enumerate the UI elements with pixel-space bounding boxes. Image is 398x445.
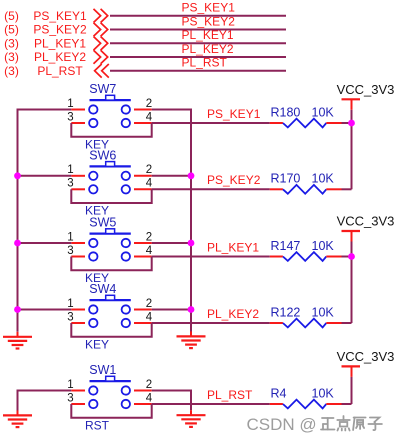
svg-text:1: 1 bbox=[67, 231, 73, 243]
wire SW4 pin2 to GND bus bbox=[152, 309, 192, 311]
svg-text:(3): (3) bbox=[4, 37, 19, 51]
svg-text:PL_RST: PL_RST bbox=[37, 64, 83, 78]
svg-text:R180: R180 bbox=[271, 105, 301, 119]
resistor R180 10K bbox=[270, 119, 342, 128]
net label PS_KEY1 bbox=[182, 1, 236, 15]
wire net PS_KEY2 bbox=[152, 188, 270, 190]
ground right bbox=[177, 331, 206, 348]
sheet entry chevron PL_KEY2 bbox=[94, 50, 108, 64]
svg-text:R170: R170 bbox=[271, 172, 301, 186]
wire SW6 pin1 to GND bus bbox=[17, 175, 72, 177]
junction left bus bbox=[14, 172, 21, 179]
net label PL_KEY2 bbox=[182, 42, 234, 56]
svg-text:4: 4 bbox=[146, 245, 153, 257]
SW5 pin 2 bbox=[134, 231, 152, 243]
wire PL_KEY1 bbox=[110, 42, 286, 44]
sheet entry chevron PS_KEY1 bbox=[94, 9, 108, 23]
label R147 bbox=[271, 239, 301, 253]
svg-text:PS_KEY2: PS_KEY2 bbox=[182, 14, 236, 28]
SW6 pin 2 bbox=[134, 164, 152, 176]
SW7 pin 4 bbox=[134, 111, 153, 123]
svg-text:VCC_3V3: VCC_3V3 bbox=[337, 82, 395, 97]
svg-text:10K: 10K bbox=[312, 239, 335, 253]
wire pins 3-4 of SW6 bbox=[71, 189, 151, 203]
wire VCC rail bbox=[351, 110, 353, 190]
svg-text:VCC_3V3: VCC_3V3 bbox=[337, 349, 395, 364]
svg-text:PS_KEY1: PS_KEY1 bbox=[182, 1, 236, 15]
junction VCC rail bbox=[348, 120, 355, 127]
SW7 pin 3 bbox=[67, 111, 85, 123]
svg-text:(3): (3) bbox=[4, 64, 19, 78]
svg-text:2: 2 bbox=[146, 98, 152, 110]
svg-text:PS_KEY1: PS_KEY1 bbox=[33, 9, 87, 23]
resistor R170 10K bbox=[270, 185, 342, 194]
junction right bus bbox=[188, 240, 195, 247]
wire pins 3-4 of SW7 bbox=[71, 123, 151, 137]
svg-text:4: 4 bbox=[146, 311, 153, 323]
svg-text:PL_KEY1: PL_KEY1 bbox=[34, 37, 86, 51]
svg-text:PL_KEY1: PL_KEY1 bbox=[207, 240, 259, 254]
wire PL_KEY2 bbox=[110, 56, 286, 58]
svg-text:PL_KEY2: PL_KEY2 bbox=[207, 307, 259, 321]
label R122 bbox=[271, 305, 301, 319]
label R170 bbox=[271, 172, 301, 186]
svg-text:PS_KEY2: PS_KEY2 bbox=[33, 23, 87, 37]
wire SW5 pin1 to GND bus bbox=[17, 242, 72, 244]
watermark char dian bbox=[337, 416, 350, 431]
switch SW1 body bbox=[89, 376, 131, 408]
wire R122 to VCC rail bbox=[342, 322, 352, 324]
svg-text:R122: R122 bbox=[271, 305, 301, 319]
SW4 pin 3 bbox=[67, 311, 85, 323]
net label PS_KEY2 bbox=[182, 14, 236, 28]
watermark char yuan bbox=[353, 418, 366, 431]
svg-text:3: 3 bbox=[67, 392, 73, 404]
net label PS_KEY1 bbox=[207, 107, 261, 121]
ground left bbox=[3, 332, 32, 349]
ground SW1 left bbox=[3, 410, 32, 427]
wire net PL_KEY2 bbox=[152, 322, 270, 324]
wire net PL_KEY1 bbox=[152, 256, 270, 258]
wire R180 to VCC rail bbox=[342, 122, 352, 124]
designator SW7 bbox=[89, 82, 116, 96]
sheet entry chevron PL_RST bbox=[95, 64, 109, 78]
wire R147 to VCC rail bbox=[342, 256, 352, 258]
designator SW5 bbox=[89, 216, 116, 230]
wire SW1 pin2 to GND bbox=[152, 391, 191, 411]
svg-text:R4: R4 bbox=[271, 386, 287, 400]
svg-text:3: 3 bbox=[67, 245, 73, 257]
switch SW4 body bbox=[89, 295, 131, 327]
port name PS_KEY1 bbox=[33, 9, 87, 23]
svg-text:(3): (3) bbox=[4, 50, 19, 64]
svg-text:4: 4 bbox=[146, 392, 153, 404]
wire pins 3-4 of SW5 bbox=[71, 257, 151, 271]
SW6 pin 1 bbox=[67, 164, 85, 176]
wire SW6 pin2 to GND bus bbox=[152, 175, 192, 177]
wire PL_RST bbox=[110, 70, 286, 72]
port reference (5) PS_KEY2 bbox=[4, 23, 19, 37]
junction left bus bbox=[14, 306, 21, 313]
watermark CSDN bbox=[247, 415, 317, 434]
svg-text:10K: 10K bbox=[312, 305, 335, 319]
value 10K bbox=[312, 386, 335, 400]
net label PL_KEY2 bbox=[207, 307, 259, 321]
sheet entry chevron PL_KEY1 bbox=[94, 37, 108, 51]
SW7 pin 2 bbox=[134, 98, 152, 110]
switch SW7 body bbox=[89, 95, 131, 127]
designator SW1 bbox=[89, 363, 116, 377]
SW7 pin 1 bbox=[67, 98, 85, 110]
wire pins 3-4 of SW4 bbox=[71, 323, 151, 337]
port reference (3) PL_RST bbox=[4, 64, 19, 78]
wire PS_KEY2 bbox=[110, 29, 286, 31]
wire SW4 pin1 to GND bus bbox=[17, 309, 72, 311]
wire pins 3-4 of SW1 bbox=[71, 404, 151, 418]
svg-text:2: 2 bbox=[146, 379, 152, 391]
svg-text:1: 1 bbox=[67, 379, 73, 391]
SW1 pin 1 bbox=[67, 379, 85, 391]
port name PL_RST bbox=[37, 64, 83, 78]
svg-text:SW6: SW6 bbox=[89, 149, 116, 163]
wire VCC rail bbox=[351, 377, 353, 404]
svg-text:(5): (5) bbox=[4, 9, 19, 23]
label R4 bbox=[271, 386, 287, 400]
svg-text:10K: 10K bbox=[312, 386, 335, 400]
SW4 pin 2 bbox=[134, 298, 152, 310]
ground SW1 right bbox=[177, 410, 206, 427]
SW5 pin 4 bbox=[134, 245, 153, 257]
svg-text:PL_KEY2: PL_KEY2 bbox=[182, 42, 234, 56]
SW1 pin 4 bbox=[134, 392, 153, 404]
SW1 pin 2 bbox=[134, 379, 152, 391]
left GND bus bbox=[17, 109, 19, 332]
wire SW5 pin2 to GND bus bbox=[152, 242, 192, 244]
svg-text:CSDN @: CSDN @ bbox=[247, 415, 317, 434]
comment KEY bbox=[85, 137, 109, 151]
svg-text:PL_RST: PL_RST bbox=[207, 388, 253, 402]
svg-text:PL_KEY2: PL_KEY2 bbox=[34, 50, 86, 64]
svg-text:PS_KEY1: PS_KEY1 bbox=[207, 107, 261, 121]
SW6 pin 3 bbox=[67, 178, 85, 190]
svg-text:PS_KEY2: PS_KEY2 bbox=[207, 173, 261, 187]
svg-text:KEY: KEY bbox=[85, 337, 109, 351]
net label PS_KEY2 bbox=[207, 173, 261, 187]
junction left bus bbox=[14, 240, 21, 247]
net label PL_KEY1 bbox=[207, 240, 259, 254]
svg-text:R147: R147 bbox=[271, 239, 301, 253]
comment KEY bbox=[85, 271, 109, 285]
port reference (5) PS_KEY1 bbox=[4, 9, 19, 23]
right GND bus bbox=[190, 109, 192, 332]
SW4 pin 1 bbox=[67, 298, 85, 310]
junction right bus bbox=[188, 172, 195, 179]
svg-text:PL_RST: PL_RST bbox=[182, 56, 228, 70]
port name PS_KEY2 bbox=[33, 23, 87, 37]
SW4 pin 4 bbox=[134, 311, 153, 323]
svg-text:4: 4 bbox=[146, 111, 153, 123]
comment KEY bbox=[85, 337, 109, 351]
switch SW6 body bbox=[89, 162, 131, 194]
designator SW6 bbox=[89, 149, 116, 163]
wire SW1 pin1 to GND bbox=[18, 391, 72, 411]
junction right bus bbox=[188, 306, 195, 313]
svg-text:10K: 10K bbox=[312, 105, 335, 119]
resistor R122 10K bbox=[270, 319, 342, 328]
designator SW4 bbox=[89, 282, 116, 296]
port reference (3) PL_KEY2 bbox=[4, 50, 19, 64]
watermark char zi bbox=[368, 418, 382, 431]
value 10K bbox=[312, 239, 335, 253]
svg-text:PL_KEY1: PL_KEY1 bbox=[182, 28, 234, 42]
net label PL_KEY1 bbox=[182, 28, 234, 42]
value 10K bbox=[312, 172, 335, 186]
comment RST bbox=[85, 418, 110, 432]
svg-text:1: 1 bbox=[67, 298, 73, 310]
resistor R147 10K bbox=[270, 252, 342, 261]
SW5 pin 3 bbox=[67, 245, 85, 257]
value 10K bbox=[312, 305, 335, 319]
sheet entry chevron PS_KEY2 bbox=[94, 23, 108, 37]
svg-text:4: 4 bbox=[146, 178, 153, 190]
label R180 bbox=[271, 105, 301, 119]
svg-text:10K: 10K bbox=[312, 172, 335, 186]
svg-text:SW1: SW1 bbox=[89, 363, 116, 377]
port reference (3) PL_KEY1 bbox=[4, 37, 19, 51]
svg-text:SW4: SW4 bbox=[89, 282, 116, 296]
switch SW5 body bbox=[89, 229, 131, 261]
comment KEY bbox=[85, 204, 109, 218]
wire VCC rail bbox=[351, 242, 353, 324]
svg-text:SW7: SW7 bbox=[89, 82, 116, 96]
svg-text:1: 1 bbox=[67, 98, 73, 110]
wire R4 to VCC rail bbox=[342, 403, 352, 405]
watermark char zheng bbox=[321, 418, 335, 430]
wire net PL_RST bbox=[152, 403, 270, 405]
svg-text:VCC_3V3: VCC_3V3 bbox=[337, 214, 395, 229]
power port VCC_3V3 bbox=[337, 214, 395, 242]
port name PL_KEY1 bbox=[34, 37, 86, 51]
port name PL_KEY2 bbox=[34, 50, 86, 64]
power port VCC_3V3 bbox=[337, 82, 395, 110]
net label PL_RST bbox=[207, 388, 253, 402]
wire SW7 pin1 to GND bus bbox=[17, 109, 72, 111]
SW1 pin 3 bbox=[67, 392, 85, 404]
power port VCC_3V3 bbox=[337, 349, 395, 377]
svg-text:1: 1 bbox=[67, 164, 73, 176]
net label PL_RST bbox=[182, 56, 228, 70]
svg-text:3: 3 bbox=[67, 311, 73, 323]
svg-text:3: 3 bbox=[67, 111, 73, 123]
svg-text:(5): (5) bbox=[4, 23, 19, 37]
resistor R4 10K bbox=[270, 400, 342, 409]
value 10K bbox=[312, 105, 335, 119]
svg-text:2: 2 bbox=[146, 231, 152, 243]
wire SW7 pin2 to GND bus bbox=[152, 109, 192, 111]
SW5 pin 1 bbox=[67, 231, 85, 243]
wire R170 to VCC rail bbox=[342, 188, 352, 190]
svg-text:2: 2 bbox=[146, 164, 152, 176]
wire net PS_KEY1 bbox=[152, 122, 270, 124]
junction VCC rail bbox=[348, 253, 355, 260]
svg-text:SW5: SW5 bbox=[89, 216, 116, 230]
svg-text:RST: RST bbox=[85, 418, 110, 432]
SW6 pin 4 bbox=[134, 178, 153, 190]
svg-text:3: 3 bbox=[67, 178, 73, 190]
wire PS_KEY1 bbox=[110, 15, 286, 17]
svg-text:2: 2 bbox=[146, 298, 152, 310]
